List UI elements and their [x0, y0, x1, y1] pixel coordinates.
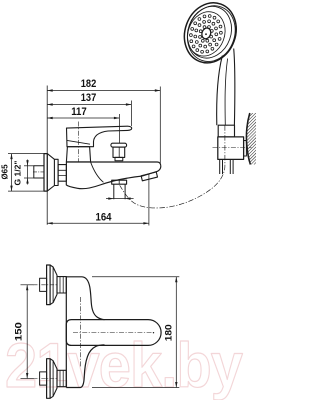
svg-text:21vek.by: 21vek.by — [5, 331, 243, 400]
outlet pipe — [114, 184, 125, 199]
body slab — [66, 277, 104, 320]
svg-text:Ø65: Ø65 — [0, 164, 9, 180]
shower handle — [217, 56, 223, 126]
svg-text:150: 150 — [14, 322, 25, 341]
flange cone — [47, 154, 54, 192]
wall line — [46, 86, 48, 225]
flange rim — [44, 154, 47, 192]
head shell side — [180, 0, 243, 68]
hub center dot — [205, 33, 207, 35]
wall edge — [246, 113, 250, 165]
dim 150 — [26, 285, 28, 379]
svg-text:164: 164 — [96, 212, 113, 224]
dim phi65 — [8, 154, 45, 192]
bracket centerline — [213, 147, 252, 149]
hose nut — [218, 125, 234, 137]
lever capsule — [66, 320, 161, 346]
faucet body — [66, 162, 161, 189]
dim 117 — [47, 114, 119, 143]
dim 164 — [47, 174, 149, 226]
cartridge axis — [77, 122, 79, 163]
nozzle field — [190, 15, 223, 54]
bracket — [218, 137, 244, 160]
dim 137 — [47, 101, 131, 127]
outlet arrows — [106, 198, 134, 200]
body fillet — [91, 162, 104, 182]
spray face — [181, 6, 231, 61]
shower outlet collar — [112, 180, 127, 184]
lever blade — [67, 126, 132, 147]
svg-text:117: 117 — [71, 106, 87, 118]
aerator — [141, 172, 157, 181]
slab axis — [79, 297, 81, 367]
blade inner edge — [67, 140, 90, 144]
svg-text:180: 180 — [163, 324, 174, 341]
hub — [200, 27, 212, 40]
top connection — [21, 265, 67, 305]
svg-text:182: 182 — [81, 78, 97, 90]
diverter knob — [111, 143, 127, 147]
hose below bracket — [220, 159, 233, 174]
flange cylinder — [54, 159, 58, 185]
hose centerline — [120, 125, 225, 208]
svg-text:137: 137 — [81, 92, 97, 104]
bottom connection — [21, 359, 67, 399]
dim G 1/2 — [24, 160, 35, 185]
hex nut — [58, 165, 66, 182]
dim 180 — [92, 277, 179, 388]
capsule centerline — [73, 332, 152, 334]
threaded pipe G1/2 — [34, 166, 44, 178]
WATERMARK — [5, 331, 243, 400]
cartridge ring — [66, 147, 90, 162]
dim 182 — [47, 87, 160, 164]
svg-text:G 1/2": G 1/2" — [14, 160, 23, 185]
head rim — [180, 0, 238, 64]
head outer shell — [176, 0, 244, 70]
